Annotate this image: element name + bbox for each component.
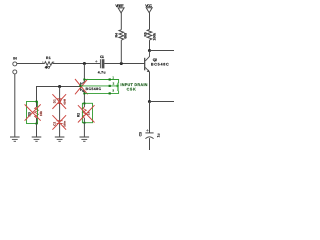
pin marker green pin1 left bbox=[83, 79, 85, 81]
svg-text:100n: 100n bbox=[64, 120, 67, 126]
delete cross Q1 bbox=[75, 79, 88, 94]
resistor R3 (crossed out, selected) bbox=[27, 102, 43, 124]
resistor R4 bbox=[115, 30, 128, 41]
svg-text:INPUT DRAIN: INPUT DRAIN bbox=[120, 83, 147, 87]
wire R4 to base-net bbox=[120, 40, 122, 63]
connector J1 pad 2 bbox=[13, 70, 17, 74]
svg-text:D1: D1 bbox=[53, 99, 57, 103]
wire R1 to C1 bbox=[53, 63, 101, 65]
svg-text:R1: R1 bbox=[46, 56, 51, 60]
replacement transistor body (green) bbox=[117, 83, 118, 91]
connector J1 pad IN bbox=[13, 56, 17, 66]
junction node VREF-net bbox=[120, 62, 123, 65]
svg-text:IN: IN bbox=[13, 56, 17, 60]
delete cross R3 bbox=[25, 104, 41, 120]
svg-text:6k8: 6k8 bbox=[124, 33, 128, 39]
pin marker green pin2 left bbox=[79, 85, 81, 87]
svg-text:R4: R4 bbox=[115, 33, 119, 37]
delete cross C2 bbox=[52, 115, 66, 130]
svg-text:C3: C3 bbox=[139, 132, 143, 136]
capacitor C2 (crossed out) bbox=[53, 120, 67, 126]
resistor R5 bbox=[143, 30, 156, 41]
replacement transistor pin 1 line (green) bbox=[80, 80, 118, 94]
ground GND2 bbox=[32, 137, 42, 141]
junction node emitter bbox=[148, 100, 151, 103]
svg-text:BC548C: BC548C bbox=[151, 62, 169, 66]
svg-text:4K7: 4K7 bbox=[45, 66, 51, 70]
wire emitter net to right edge bbox=[150, 101, 175, 103]
svg-text:4.7u: 4.7u bbox=[98, 71, 106, 75]
pin marker R3 top bbox=[36, 101, 38, 103]
svg-text:BC548C: BC548C bbox=[86, 87, 102, 91]
junction node collector bbox=[148, 49, 151, 52]
svg-text:2: 2 bbox=[113, 82, 115, 86]
wire C3 to bottom edge bbox=[149, 138, 151, 150]
delete cross R2 bbox=[78, 105, 95, 122]
wire IN to R1 bbox=[17, 63, 45, 65]
pin marker green pin2 mid bbox=[109, 85, 111, 87]
svg-text:1: 1 bbox=[112, 75, 114, 79]
svg-text:1u: 1u bbox=[157, 133, 161, 137]
capacitor C1 (polarized) bbox=[95, 55, 105, 75]
wire base-net junction down to Q1 bbox=[83, 64, 85, 81]
pin marker green pin1 mid bbox=[109, 78, 111, 80]
resistor R2 (crossed out, selected) bbox=[77, 103, 91, 122]
svg-text:3: 3 bbox=[112, 89, 114, 93]
wire R5 to collector junction bbox=[149, 40, 151, 50]
replacement transistor pin 3 line (green) bbox=[84, 91, 118, 94]
wire Q2 emitter down bbox=[149, 72, 151, 102]
wire emitter to C3 bbox=[149, 102, 151, 133]
wire Q1 emitter to R2 bbox=[83, 93, 85, 103]
svg-text:C2: C2 bbox=[53, 122, 57, 126]
pin marker R2 bottom bbox=[83, 122, 85, 124]
selection box R2 bbox=[82, 103, 92, 122]
pin marker R3 bottom bbox=[36, 123, 38, 125]
transistor Q1 BC548C (crossed out) bbox=[80, 80, 101, 93]
delete cross D1 bbox=[52, 94, 66, 109]
wire pad2 down to ground bbox=[14, 74, 16, 137]
power symbol VCC bbox=[145, 4, 152, 30]
svg-text:4148: 4148 bbox=[64, 98, 67, 104]
wire C1 to Q2 base bbox=[104, 63, 144, 65]
junction node bias bbox=[58, 85, 61, 88]
wire bias net horizontal bbox=[37, 87, 81, 102]
svg-text:R2: R2 bbox=[77, 113, 81, 117]
svg-text:C5K: C5K bbox=[127, 88, 136, 92]
svg-text:10k: 10k bbox=[39, 111, 43, 116]
pin marker green pin3 left bbox=[83, 92, 85, 94]
resistor R1 bbox=[42, 56, 55, 70]
pin marker green pin3 mid bbox=[109, 92, 111, 94]
junction node base-net bbox=[83, 62, 86, 65]
transistor Q2 BC548C bbox=[144, 51, 169, 73]
svg-text:100k: 100k bbox=[152, 33, 156, 41]
ground GND3 bbox=[55, 137, 65, 141]
svg-text:R5: R5 bbox=[143, 32, 147, 36]
ground GND4 bbox=[80, 137, 90, 141]
replacement transistor pin 2 line (green) bbox=[80, 85, 117, 87]
power symbol VREF bbox=[115, 4, 124, 30]
wire R2 to ground bbox=[83, 123, 85, 137]
wire bias down column bbox=[59, 87, 61, 137]
pin marker R2 top bbox=[83, 102, 85, 104]
svg-text:C1: C1 bbox=[100, 55, 104, 59]
ground GND1 bbox=[10, 137, 20, 141]
selection box R3 bbox=[27, 102, 38, 124]
capacitor C3 (polarized) bbox=[139, 129, 161, 138]
diode D1 (crossed out) bbox=[53, 98, 67, 104]
wire collector net to right edge bbox=[150, 50, 175, 52]
wire R3 to ground bbox=[36, 124, 38, 137]
